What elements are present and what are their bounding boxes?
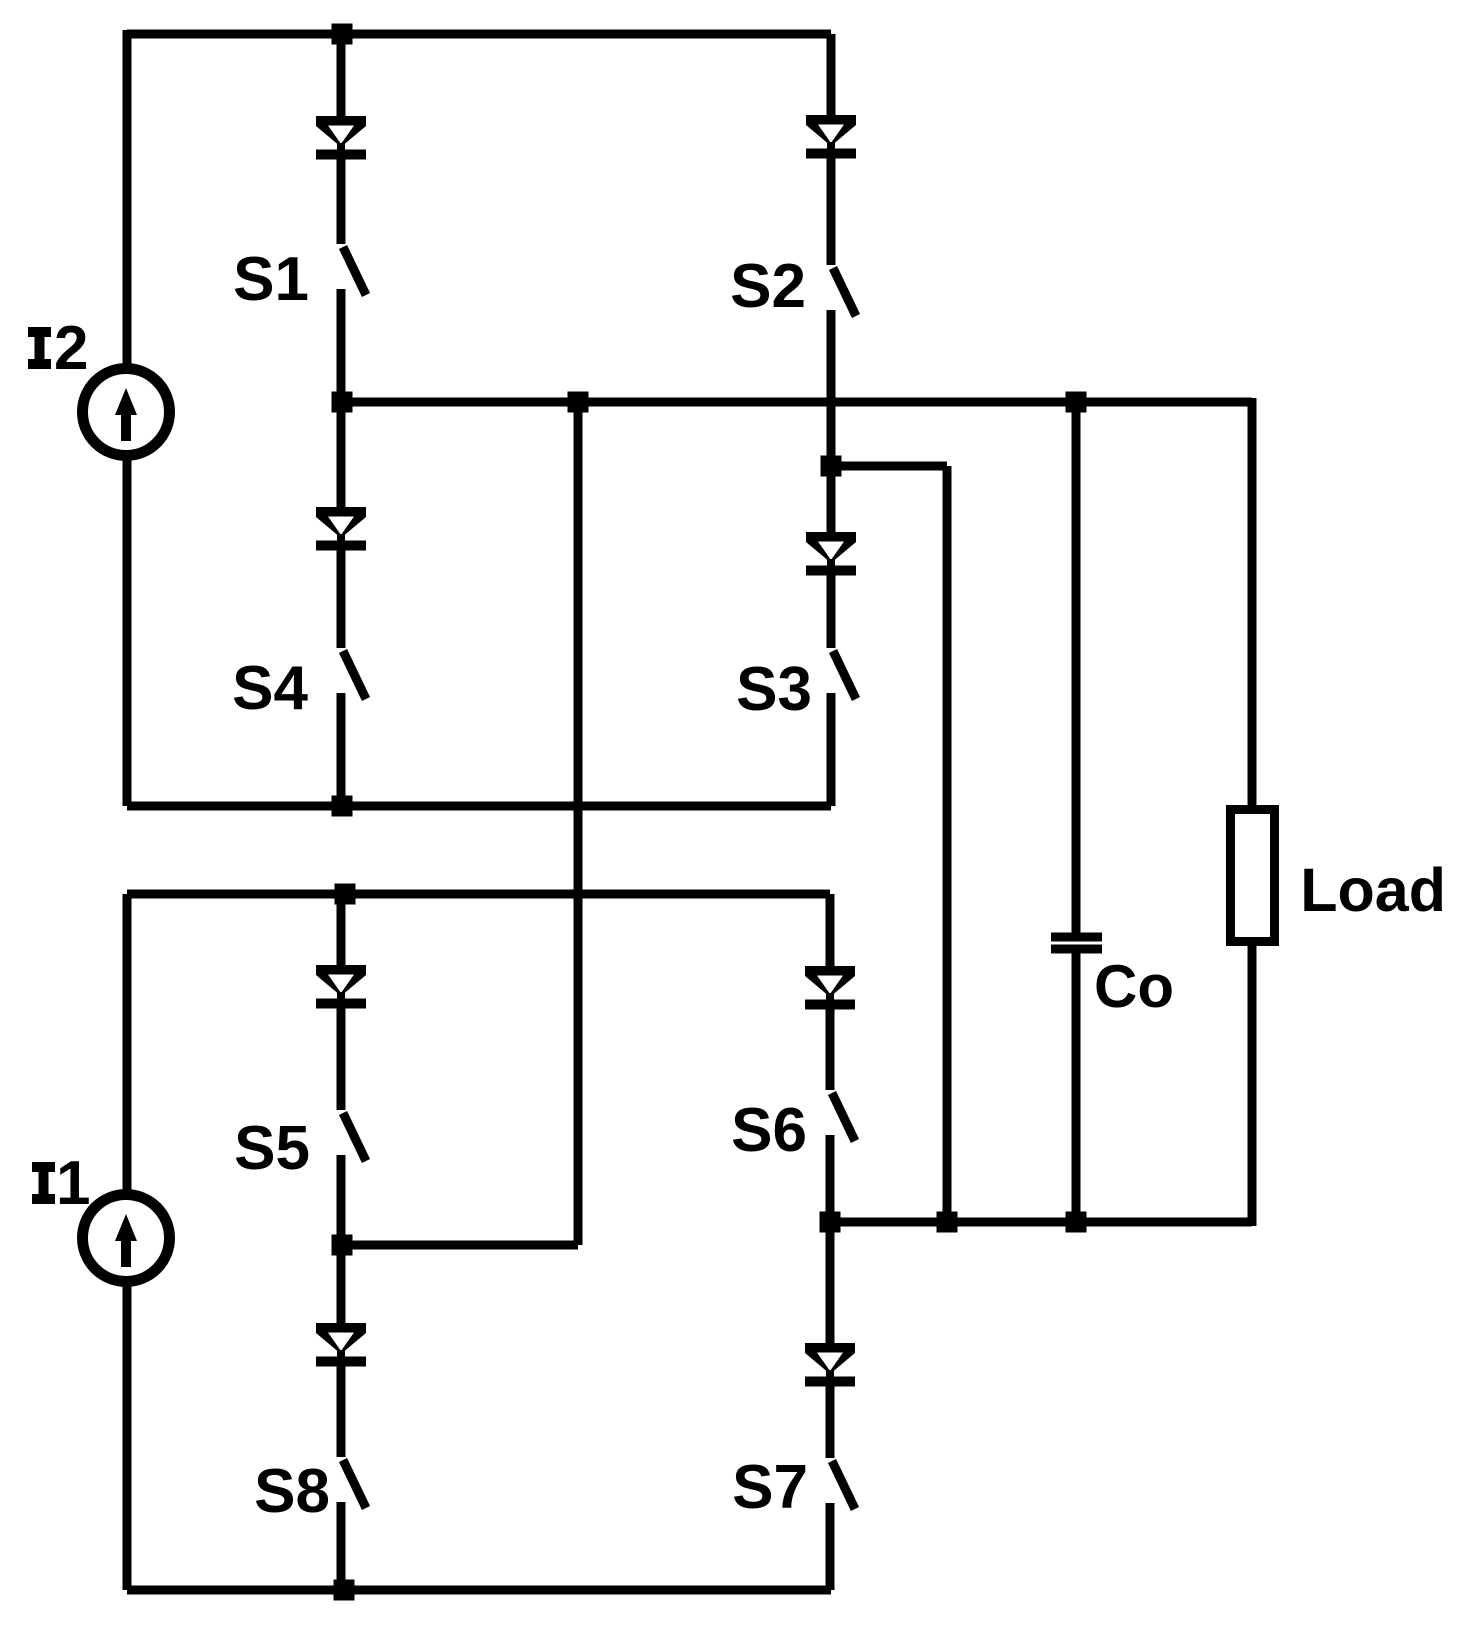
svg-text:S7: S7 <box>732 1453 808 1522</box>
svg-text:2: 2 <box>54 314 88 383</box>
svg-text:1: 1 <box>56 1149 90 1218</box>
svg-text:S1: S1 <box>233 245 309 314</box>
svg-text:Load: Load <box>1300 856 1446 924</box>
svg-text:Co: Co <box>1094 953 1174 1020</box>
svg-text:S3: S3 <box>736 655 812 724</box>
svg-text:S6: S6 <box>731 1096 807 1165</box>
svg-text:S8: S8 <box>254 1457 330 1526</box>
svg-text:S2: S2 <box>730 252 806 321</box>
svg-text:S5: S5 <box>234 1114 310 1183</box>
svg-text:S4: S4 <box>232 654 308 723</box>
